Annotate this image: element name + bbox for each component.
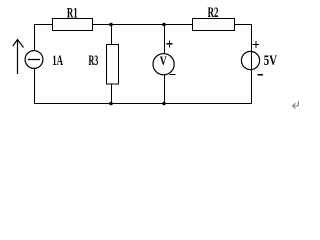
resistor R3 bbox=[107, 45, 119, 85]
node junction dot bottom V bbox=[162, 102, 166, 106]
current source arrow bbox=[13, 40, 24, 75]
voltmeter minus sign bbox=[170, 74, 176, 76]
wire right vertical bbox=[251, 24, 253, 104]
wire left vertical lower bbox=[34, 67, 36, 104]
wire top horizontal bbox=[34, 24, 252, 26]
voltage source plus sign bbox=[253, 41, 259, 48]
wire left vertical upper bbox=[34, 24, 36, 52]
svg-text:5V: 5V bbox=[264, 53, 278, 69]
node junction dot top R3 bbox=[109, 23, 113, 27]
node junction dot bottom R3 bbox=[109, 102, 113, 106]
svg-text:R3: R3 bbox=[89, 53, 99, 69]
voltage source minus sign bbox=[258, 74, 264, 76]
node junction dot top V bbox=[162, 23, 166, 27]
svg-text:R1: R1 bbox=[67, 6, 78, 22]
voltmeter plus sign bbox=[166, 40, 172, 47]
voltage source 5V circle bbox=[241, 51, 259, 69]
svg-text:R2: R2 bbox=[208, 5, 219, 21]
wire V branch vertical bbox=[164, 24, 166, 103]
wire bottom horizontal bbox=[34, 103, 252, 105]
paragraph return mark bbox=[293, 101, 299, 108]
svg-text:1A: 1A bbox=[52, 53, 63, 69]
svg-text:V: V bbox=[160, 53, 167, 68]
voltmeter V circle bbox=[153, 54, 174, 75]
resistor R1 bbox=[53, 19, 93, 31]
wire R3 branch vertical bbox=[111, 24, 113, 103]
current source I1 circle bbox=[25, 51, 43, 69]
current source I1 bar bbox=[28, 59, 40, 61]
resistor R2 bbox=[193, 19, 235, 31]
